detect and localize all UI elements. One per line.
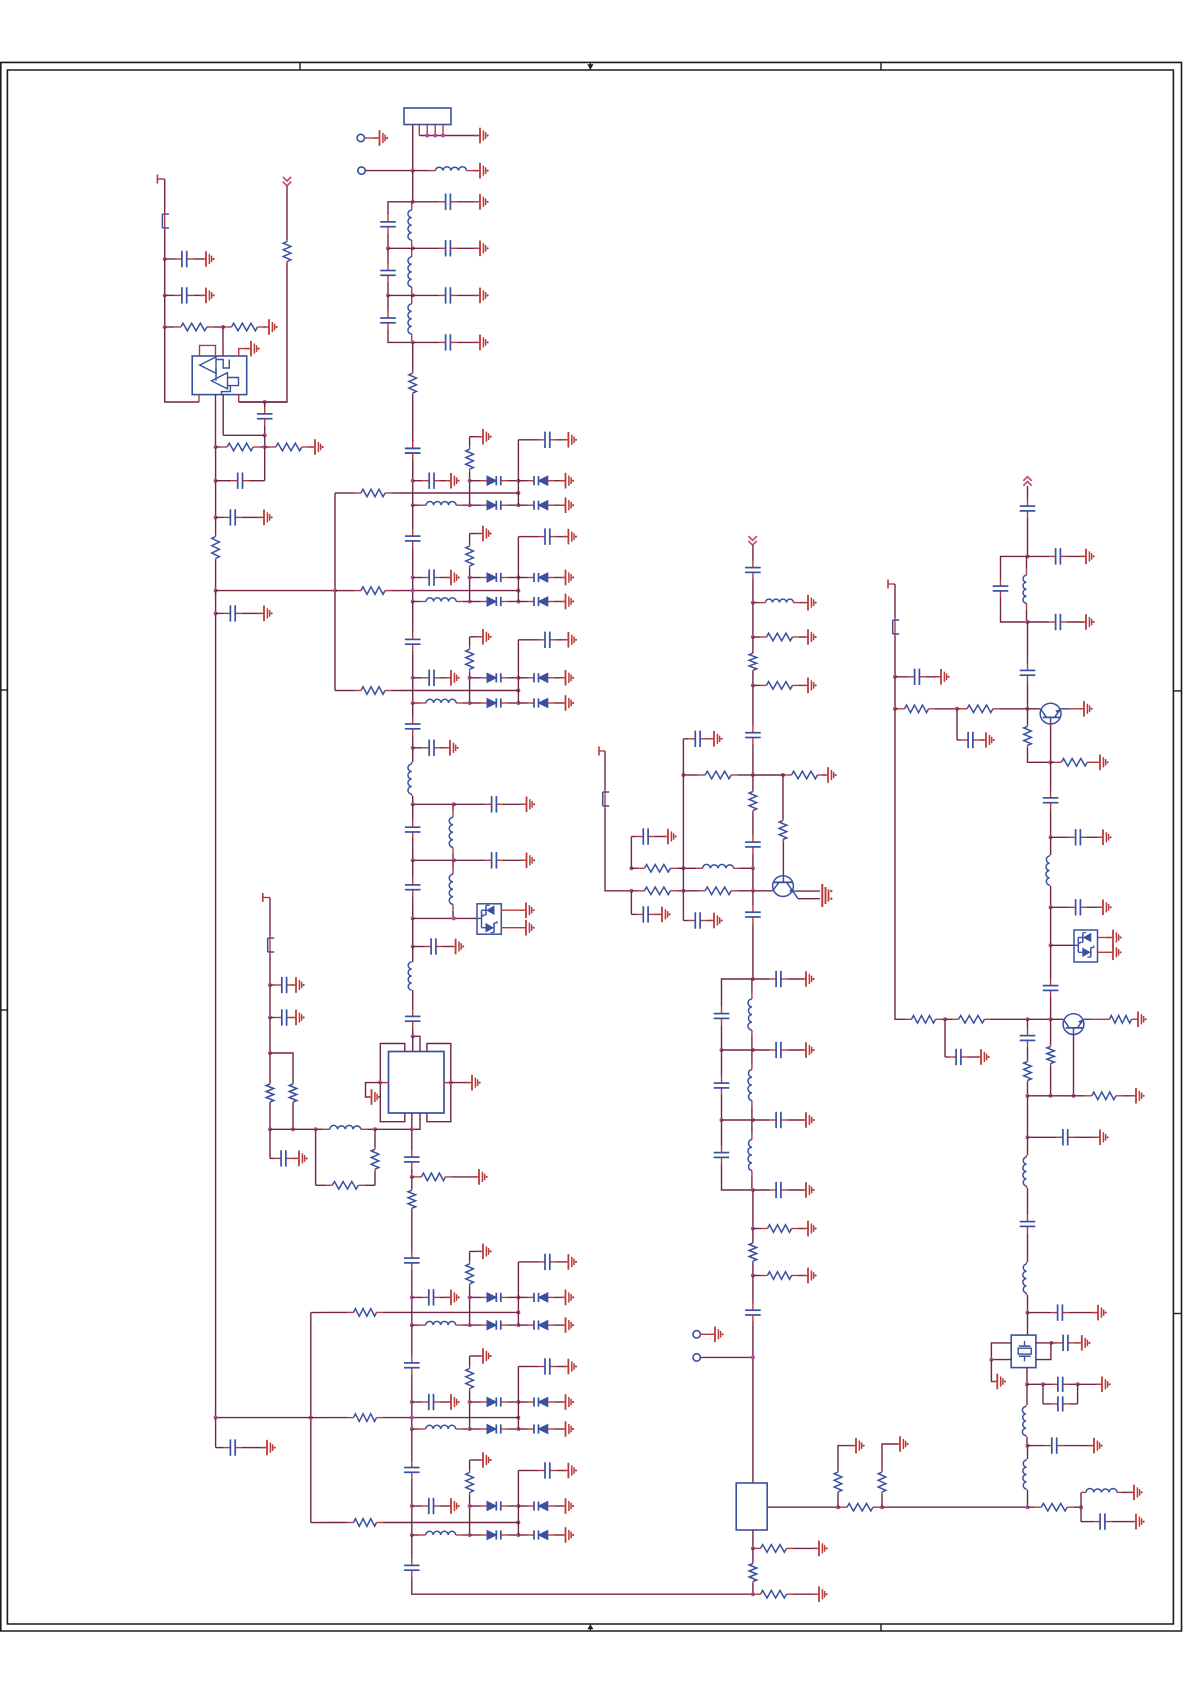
resistor R21 (631, 887, 683, 895)
capacitor C63 (1043, 1377, 1078, 1392)
wire (1027, 1313, 1029, 1335)
wire collector (1050, 724, 1052, 762)
wire (1027, 1188, 1029, 1212)
resistor R41 (957, 705, 1003, 713)
ground (822, 884, 832, 907)
terminal pin P2 (358, 167, 365, 174)
junction (1049, 1094, 1053, 1098)
junction (943, 1017, 947, 1021)
junction (720, 1048, 724, 1052)
capacitor C9 (165, 251, 204, 267)
ground (562, 632, 577, 648)
inductor L20 (413, 501, 470, 505)
varactor D32a (470, 1501, 519, 1510)
wire (722, 1119, 753, 1121)
resistor R19 (779, 819, 787, 841)
wire (365, 137, 378, 139)
capacitor C4 (413, 194, 478, 210)
wire (292, 1103, 294, 1129)
wire (399, 690, 518, 692)
wire (198, 395, 200, 402)
wire (411, 1172, 413, 1177)
capacitor C19 (454, 852, 525, 868)
junction (516, 479, 520, 483)
varactor D32b (518, 1501, 563, 1510)
resistor R36 (749, 1562, 757, 1583)
junction (263, 445, 267, 449)
junction (516, 1310, 520, 1314)
ground (1088, 1438, 1103, 1454)
capacitor C22c (528, 632, 566, 648)
wire (1027, 685, 1029, 709)
resistor R33 (834, 1470, 842, 1494)
varactor D31b (518, 1397, 563, 1406)
wire to IC2 (752, 1325, 754, 1483)
ground (1107, 945, 1122, 961)
terminal T4 (888, 580, 895, 589)
junction (751, 1227, 755, 1231)
wire (518, 1366, 528, 1368)
ground (560, 497, 575, 513)
inductor L32 (412, 1531, 470, 1535)
ground (1092, 1305, 1107, 1321)
junction (214, 611, 218, 615)
wire (264, 431, 266, 436)
junction (263, 400, 267, 404)
wire (752, 775, 754, 790)
ground (1078, 701, 1093, 717)
wire (469, 534, 471, 544)
border tick bottom (880, 1624, 882, 1631)
ground (802, 1221, 817, 1237)
capacitor C57 (945, 1049, 972, 1065)
wire (239, 401, 287, 403)
wire (794, 1547, 817, 1549)
junction (516, 1295, 520, 1299)
resistor R17 (783, 771, 826, 779)
IC U4 (736, 1483, 767, 1530)
capacitor C32a series (404, 1458, 420, 1482)
inductor L22 (413, 699, 470, 703)
resistor R39 (1051, 759, 1098, 767)
resistor R42 (905, 1016, 942, 1024)
wire (752, 812, 754, 833)
ground (980, 732, 995, 748)
ground (709, 1327, 724, 1343)
capacitor C20c (528, 432, 566, 448)
junction (1026, 1311, 1030, 1315)
junction (386, 246, 390, 250)
wire (1027, 1490, 1029, 1507)
wire (164, 259, 166, 295)
resistor R40 (895, 705, 938, 713)
junction (1026, 620, 1030, 624)
wire (721, 1120, 723, 1143)
wire (752, 637, 754, 653)
resistor R44 (1105, 1016, 1136, 1024)
wire (387, 233, 389, 248)
ground (1080, 614, 1095, 630)
wire (269, 1053, 271, 1083)
resistor R2 (165, 323, 223, 331)
capacitor C31 (745, 723, 761, 747)
wire (881, 1494, 883, 1507)
junction (751, 1118, 755, 1122)
junction (411, 600, 415, 604)
power rail symbol (283, 177, 291, 186)
junction (1026, 1505, 1030, 1509)
resistor R5 (216, 443, 265, 451)
resistor R46 (1047, 1044, 1055, 1066)
junction (681, 889, 685, 893)
ground (473, 1169, 488, 1185)
ground (1094, 755, 1109, 771)
resistor R4 (283, 240, 291, 263)
resistor R20 (466, 447, 474, 472)
inductor L14 (748, 1120, 752, 1190)
wire (517, 640, 519, 678)
wire (469, 637, 471, 647)
junction (291, 1127, 295, 1131)
ground (560, 473, 575, 489)
ground (1094, 1130, 1109, 1146)
wire (752, 1530, 754, 1548)
ground (1130, 1514, 1145, 1530)
wire (1050, 1019, 1052, 1044)
wire (469, 1356, 471, 1366)
inductor L4 (408, 295, 412, 342)
capacitor C18 (405, 818, 421, 842)
ground (562, 1359, 577, 1375)
junction (214, 589, 218, 593)
wire (470, 436, 481, 438)
border tick top-2 (880, 62, 882, 70)
wire (1001, 556, 1028, 576)
wire emitter (1073, 1035, 1075, 1096)
wire (722, 1049, 753, 1051)
ground (445, 670, 460, 686)
wire (222, 395, 224, 436)
wire (388, 202, 413, 216)
power rail symbol (1023, 477, 1031, 486)
junction (411, 479, 415, 483)
ESD diode pair U2 (477, 904, 501, 934)
junction (1049, 1017, 1053, 1021)
junction (263, 433, 267, 437)
wire (264, 447, 266, 481)
junction (1026, 554, 1030, 558)
capacitor C11 (257, 402, 273, 431)
resistor R30 (466, 1261, 474, 1286)
junction (468, 503, 472, 507)
wire bus (412, 602, 414, 630)
wire pin (434, 125, 436, 136)
wire (517, 537, 519, 578)
wire (1051, 1018, 1064, 1020)
ground (560, 1498, 575, 1514)
junction (433, 134, 437, 138)
ground (1128, 1485, 1143, 1501)
capacitor C62 (1051, 1335, 1080, 1351)
wire (991, 1359, 1011, 1361)
varactor D20b (518, 476, 563, 485)
junction (410, 1533, 414, 1537)
capacitor C36 (631, 828, 660, 844)
wire mid col (517, 578, 519, 602)
junction (681, 773, 685, 777)
ground (800, 1112, 815, 1128)
varactor D20c (470, 501, 519, 510)
wire mid col (517, 1506, 519, 1535)
wire (250, 1447, 265, 1449)
wire (630, 891, 632, 915)
junction (214, 445, 218, 449)
wire mid col (517, 678, 519, 703)
capacitor C20 (405, 875, 421, 899)
wire (1027, 1446, 1029, 1459)
wire (1051, 944, 1074, 946)
wire (938, 708, 957, 710)
junction (468, 701, 472, 705)
ground (474, 335, 489, 351)
capacitor C66 (1081, 1513, 1124, 1529)
capacitor C45 (745, 1301, 761, 1325)
wire (216, 1417, 311, 1419)
junction (893, 675, 897, 679)
resistor R22 (683, 887, 753, 895)
wire crystal left (991, 1343, 1011, 1360)
ground (802, 1268, 817, 1284)
ground (802, 678, 817, 694)
ground (991, 1374, 1006, 1390)
ferrite bead FB1 (162, 212, 169, 230)
wire (215, 1418, 217, 1448)
wire (518, 439, 528, 441)
ground (245, 341, 260, 357)
wire (752, 927, 754, 979)
junction (221, 325, 225, 329)
ground (560, 594, 575, 610)
inductor L20 (1023, 1459, 1027, 1490)
varactor D20a (470, 476, 519, 485)
wire (470, 1355, 481, 1357)
capacitor C30c (528, 1254, 566, 1270)
varactor D30c (470, 1321, 519, 1330)
ground (366, 1089, 381, 1105)
wire (1122, 1491, 1132, 1493)
junction (411, 701, 415, 705)
inductor L17 (1023, 1155, 1027, 1188)
wire cap bracket (1042, 1384, 1044, 1404)
wire (469, 1391, 471, 1429)
wire bottom run (412, 1580, 753, 1594)
wire (335, 590, 347, 592)
transistor Q1 (773, 876, 798, 899)
wire (794, 1593, 817, 1595)
wire (269, 1129, 271, 1158)
wire (412, 395, 414, 439)
wire (721, 1050, 723, 1074)
wire (501, 909, 524, 911)
junction (1049, 760, 1053, 764)
varactor D21a (470, 573, 519, 582)
capacitor C21c (528, 528, 566, 544)
junction (751, 1048, 755, 1052)
inductor L13 (748, 1050, 752, 1120)
wire (269, 1103, 271, 1129)
resistor R3 (223, 323, 266, 331)
wire (311, 1522, 326, 1524)
wire (1050, 886, 1052, 907)
capacitor C60 (1020, 1212, 1036, 1236)
wire (469, 569, 471, 602)
varactor D21c (470, 597, 519, 606)
capacitor C31b (412, 1394, 451, 1410)
wire (1027, 1082, 1029, 1096)
wire (412, 125, 414, 171)
wire (269, 898, 271, 937)
wire (517, 440, 519, 481)
ground (802, 629, 817, 645)
wire (752, 1548, 754, 1562)
resistor R35 (753, 1545, 794, 1553)
resistor R31 (753, 1272, 806, 1280)
capacitor C43 (753, 1112, 804, 1128)
capacitor C46 (1020, 497, 1036, 521)
wire (722, 1167, 753, 1190)
junction (468, 676, 472, 680)
wire (451, 1082, 470, 1084)
wire (1027, 521, 1029, 557)
junction (516, 701, 520, 705)
resistor R9 (289, 1083, 297, 1103)
wire pin (442, 125, 444, 136)
wire (798, 890, 820, 892)
junction (468, 1533, 472, 1537)
wire (1027, 622, 1029, 661)
varactor D32c (470, 1530, 519, 1539)
ground (374, 130, 389, 146)
wire (1027, 1019, 1029, 1026)
junction (214, 515, 218, 519)
wire (399, 590, 518, 592)
resistor R27 (326, 1414, 404, 1422)
junction (411, 589, 415, 593)
wire (404, 1311, 518, 1313)
junction (411, 200, 415, 204)
capacitor C64 (1043, 1396, 1078, 1411)
junction (516, 1427, 520, 1431)
wire (1098, 951, 1112, 953)
junction (411, 340, 415, 344)
wire (894, 677, 896, 709)
junction (449, 1081, 453, 1085)
junction (1049, 1341, 1053, 1345)
resistor R30 (749, 1242, 757, 1262)
transistor Q2 (1040, 703, 1069, 724)
capacitor C31c (528, 1358, 566, 1374)
border tick right (1173, 690, 1181, 692)
wire (894, 584, 896, 618)
ground (290, 977, 305, 993)
wire (250, 516, 262, 518)
junction (410, 1295, 414, 1299)
wire col683 (682, 775, 684, 868)
capacitor C31a series (404, 1353, 420, 1377)
wire (215, 481, 217, 518)
junction (163, 325, 167, 329)
wire crystal right (1036, 1342, 1051, 1344)
wire pin (418, 125, 420, 136)
wire (470, 636, 481, 638)
wire (315, 1129, 317, 1185)
wire long to output (882, 1506, 1028, 1508)
junction (629, 866, 633, 870)
wire row1 (335, 492, 347, 494)
wire (215, 395, 217, 447)
capacitor C44 (753, 1182, 804, 1198)
wire (518, 1470, 528, 1472)
junction (1026, 1444, 1030, 1448)
ground (822, 767, 837, 783)
resistor R48 (1028, 1503, 1082, 1511)
wire long left bus (215, 613, 217, 1417)
ground (560, 1394, 575, 1410)
wire (335, 690, 347, 692)
junction (452, 916, 456, 920)
wire (412, 748, 414, 762)
ground (560, 1421, 575, 1437)
junction (751, 1355, 755, 1359)
wire bus (411, 1429, 413, 1458)
capacitor C35 (683, 912, 712, 928)
ground (258, 606, 273, 622)
inductor L21 (1081, 1489, 1122, 1493)
wire (388, 247, 413, 249)
wire (239, 349, 249, 356)
wire (164, 295, 166, 327)
wire (837, 1494, 839, 1507)
wire mid col (517, 481, 519, 506)
wire (469, 1286, 471, 1325)
junction (751, 977, 755, 981)
wire (470, 1250, 481, 1252)
resistor R32 (466, 1470, 474, 1495)
junction (163, 293, 167, 297)
wire (387, 282, 389, 296)
wire (894, 636, 896, 677)
junction (751, 683, 755, 687)
ground (813, 1586, 828, 1602)
wire (387, 248, 389, 264)
junction (516, 676, 520, 680)
ground (445, 473, 460, 489)
varactor D20d (518, 501, 563, 510)
junction (268, 983, 272, 987)
junction (410, 1323, 414, 1327)
ground (1097, 900, 1112, 916)
resistor R12 (408, 1189, 416, 1209)
wire (375, 1128, 412, 1130)
capacitor C13 (216, 509, 250, 525)
wire (311, 1311, 326, 1313)
wire (753, 890, 773, 892)
junction (373, 1127, 377, 1131)
wire (412, 947, 414, 963)
wire (752, 603, 754, 637)
ground (477, 1452, 492, 1468)
junction (989, 1358, 993, 1362)
